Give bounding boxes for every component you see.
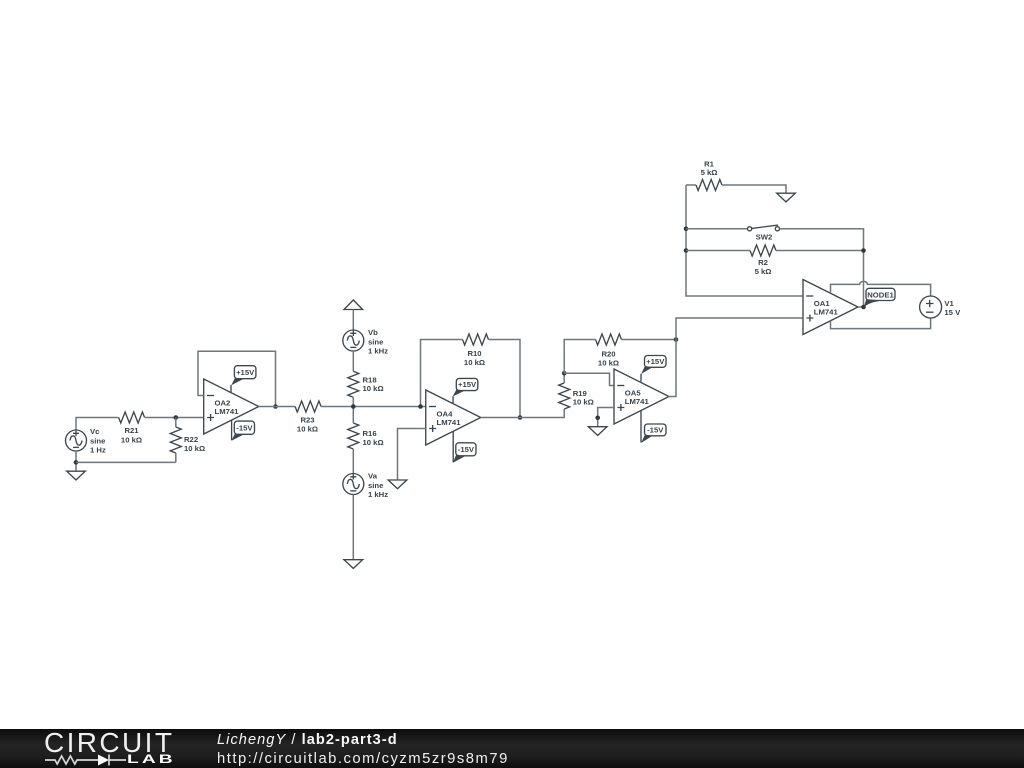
wire (OA2 feedback) (198, 351, 276, 406)
node label NODE1 (864, 288, 895, 307)
junction (418, 404, 423, 409)
svg-text:OA4: OA4 (437, 410, 454, 419)
op-amp OA4 (426, 390, 481, 445)
wire (R19 top lead) (563, 373, 565, 383)
svg-text:-15V: -15V (458, 445, 475, 454)
power flag -15V (OA4) (453, 443, 476, 463)
junction (684, 226, 689, 231)
resistor R19 (559, 383, 594, 409)
wire (76, 418, 119, 431)
svg-text:Vb: Vb (368, 328, 378, 337)
junction (674, 337, 679, 342)
resistor R1 (696, 159, 722, 190)
svg-text:-15V: -15V (647, 426, 664, 435)
svg-text:OA1: OA1 (814, 299, 831, 308)
voltage source Vb (343, 328, 388, 356)
wire (V- rail) (831, 318, 931, 329)
resistor R20 (596, 334, 622, 367)
svg-text:10 kΩ: 10 kΩ (598, 358, 619, 367)
wire (145, 417, 204, 419)
wire (352, 449, 354, 474)
svg-text:10 kΩ: 10 kΩ (573, 398, 594, 407)
wire (R1 right lead) (722, 185, 786, 193)
junction (174, 415, 179, 420)
wire (352, 397, 354, 423)
junction node NODE1 (861, 305, 866, 310)
svg-text:LM741: LM741 (814, 308, 839, 317)
junction node (R23/R18/R16) (351, 404, 356, 409)
wire (352, 495, 354, 560)
svg-text:+15V: +15V (646, 357, 665, 366)
resistor R22 (170, 427, 205, 453)
circuit title (217, 732, 398, 748)
ground (777, 193, 796, 202)
op-amp OA1 (803, 280, 858, 335)
junction (595, 416, 600, 421)
svg-text:1 Hz: 1 Hz (90, 446, 106, 455)
svg-text:R19: R19 (573, 389, 587, 398)
op-amp OA5 (614, 369, 669, 424)
svg-text:OA5: OA5 (625, 389, 642, 398)
wire (OA4 output) (481, 409, 564, 418)
op-amp OA5 V- pin (640, 410, 642, 442)
svg-text:10 kΩ: 10 kΩ (363, 438, 384, 447)
wire (R2 right lead) (776, 250, 864, 252)
svg-text:R10: R10 (467, 349, 481, 358)
wire (R20 right) (622, 339, 677, 341)
CircuitLab logo (44, 727, 174, 759)
svg-text:1 kHz: 1 kHz (368, 490, 388, 499)
svg-text:sine: sine (90, 437, 106, 446)
wire (75, 451, 77, 471)
svg-text:15 V: 15 V (944, 308, 961, 317)
wire (R2 left lead) (686, 250, 750, 252)
op-amp OA5 V+ pin (640, 374, 642, 382)
junction (861, 248, 866, 253)
footer bar (0, 729, 1024, 768)
svg-text:10 kΩ: 10 kΩ (121, 435, 142, 444)
op-amp OA4 V- pin (452, 431, 454, 462)
wire (R1 left lead) (686, 184, 696, 186)
svg-text:NODE1: NODE1 (867, 290, 894, 299)
voltage source V1 (920, 296, 961, 318)
wire (OA5 output to OA1 + input) (668, 318, 803, 397)
wire (V+ rail with hop) (831, 281, 931, 296)
power flag -15V (OA5) (641, 424, 666, 443)
ground (344, 560, 363, 569)
wire (259, 406, 295, 408)
svg-text:1 kHz: 1 kHz (368, 347, 388, 356)
svg-text:-15V: -15V (236, 423, 253, 432)
resistor R10 (463, 334, 489, 367)
svg-text:V1: V1 (944, 299, 954, 308)
ground (67, 471, 86, 480)
resistor R21 (119, 412, 145, 444)
svg-text:10 kΩ: 10 kΩ (464, 358, 485, 367)
wire (R10 right) (489, 340, 521, 418)
wire (SW2 left lead) (686, 228, 748, 230)
svg-text:5 kΩ: 5 kΩ (755, 267, 772, 276)
svg-text:10 kΩ: 10 kΩ (297, 424, 318, 433)
circuit url (217, 751, 509, 767)
junction (74, 460, 79, 465)
svg-text:R18: R18 (363, 375, 378, 384)
svg-text:10 kΩ: 10 kΩ (363, 384, 384, 393)
ground (588, 427, 607, 436)
op-amp OA4 V+ pin (452, 396, 454, 403)
wire (175, 453, 177, 462)
svg-text:R2: R2 (758, 258, 768, 267)
wire (76, 461, 176, 463)
junction (273, 404, 278, 409)
svg-text:R22: R22 (184, 435, 198, 444)
svg-text:Vc: Vc (90, 427, 100, 436)
svg-text:OA2: OA2 (215, 399, 231, 408)
svg-text:SW2: SW2 (756, 233, 773, 242)
op-amp OA2 V- pin (231, 420, 233, 440)
voltage source Va (343, 472, 388, 500)
junction (562, 371, 567, 376)
op-amp OA2 V+ pin (230, 385, 232, 393)
power flag +15V (OA4) (453, 378, 478, 396)
svg-text:+15V: +15V (458, 380, 477, 389)
resistor R16 (348, 423, 384, 449)
svg-text:R21: R21 (124, 426, 139, 435)
switch SW2 (748, 225, 780, 242)
svg-text:+15V: +15V (236, 368, 255, 377)
wire (352, 310, 354, 331)
resistor R2 (750, 245, 776, 276)
power flag -15V (OA2) (231, 421, 254, 441)
power flag +15V (OA5) (641, 356, 666, 375)
ground (388, 480, 407, 489)
junction (684, 248, 689, 253)
power flag +15V (OA2) (231, 366, 256, 386)
wire (OA1 output stub) (858, 306, 864, 308)
resistor R18 (348, 371, 384, 397)
wire (SW2 right lead / feedback vertical) (780, 229, 864, 307)
wire (OA5 + input to ground) (598, 408, 614, 427)
wire (175, 418, 177, 428)
logo resistor-diode glyph (44, 753, 128, 767)
svg-text:LM741: LM741 (215, 407, 240, 416)
svg-text:sine: sine (368, 481, 384, 490)
op-amp OA2 (204, 379, 259, 434)
svg-text:Va: Va (368, 472, 378, 481)
wire (R10 left) (421, 340, 463, 407)
resistor R23 (295, 401, 321, 433)
wire (R20 left) (564, 340, 595, 374)
svg-text:R20: R20 (601, 350, 615, 359)
svg-text:10 kΩ: 10 kΩ (184, 444, 205, 453)
wire (to OA5 - input) (564, 373, 614, 385)
ground (rotated, above Vb) (344, 300, 363, 310)
wire (OA4 + input to ground) (398, 429, 426, 481)
wire (352, 351, 354, 371)
svg-text:R16: R16 (363, 429, 377, 438)
svg-text:LM741: LM741 (437, 418, 462, 427)
junction (518, 415, 523, 420)
svg-text:5 kΩ: 5 kΩ (701, 168, 718, 177)
svg-text:R23: R23 (300, 416, 314, 425)
wire (OA1 - input net) (686, 185, 803, 296)
voltage source Vc (66, 427, 107, 455)
svg-text:sine: sine (368, 338, 384, 347)
svg-text:LM741: LM741 (625, 397, 650, 406)
wire (321, 406, 426, 408)
svg-text:R1: R1 (704, 159, 715, 168)
